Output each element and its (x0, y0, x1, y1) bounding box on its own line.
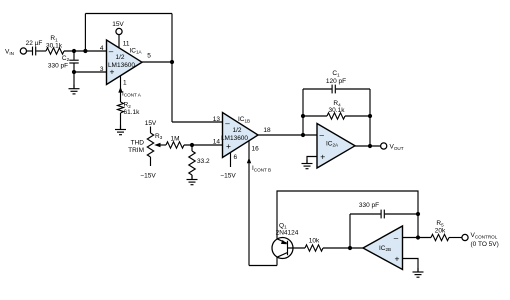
svg-text:11: 11 (123, 41, 130, 48)
svg-text:330 pF: 330 pF (48, 62, 68, 69)
svg-text:33.2: 33.2 (197, 158, 210, 165)
svg-text:−15V: −15V (140, 173, 156, 180)
svg-text:3: 3 (100, 66, 104, 73)
svg-text:–: – (225, 119, 230, 128)
svg-text:30.1k: 30.1k (46, 43, 63, 50)
svg-text:4: 4 (100, 45, 104, 52)
svg-text:6: 6 (234, 154, 238, 161)
svg-text:16: 16 (252, 146, 260, 153)
svg-text:1/2: 1/2 (115, 54, 124, 61)
svg-text:+: + (226, 141, 231, 151)
svg-text:330 pF: 330 pF (359, 202, 379, 209)
svg-text:15V: 15V (112, 21, 124, 28)
svg-text:+: + (320, 152, 325, 162)
svg-text:18: 18 (263, 127, 271, 134)
svg-text:13: 13 (213, 116, 221, 123)
svg-text:5: 5 (147, 53, 151, 60)
svg-text:61.1k: 61.1k (124, 109, 141, 116)
svg-text:THD: THD (131, 140, 145, 147)
svg-text:1/2: 1/2 (232, 127, 241, 134)
svg-text:TRIM: TRIM (128, 147, 144, 154)
svg-text:15V: 15V (145, 120, 157, 127)
svg-text:2N4124: 2N4124 (276, 230, 299, 237)
svg-text:14: 14 (213, 139, 221, 146)
svg-text:30.1k: 30.1k (329, 107, 346, 114)
svg-text:120 pF: 120 pF (326, 78, 346, 85)
svg-text:22 µF: 22 µF (26, 40, 43, 47)
svg-text:1M: 1M (170, 136, 179, 143)
svg-text:LM13600: LM13600 (108, 62, 135, 69)
svg-text:−15V: −15V (220, 173, 236, 180)
svg-text:20k: 20k (435, 228, 446, 235)
svg-text:10k: 10k (309, 238, 320, 245)
svg-text:(0 TO 5V): (0 TO 5V) (471, 241, 499, 248)
svg-text:–: – (319, 131, 324, 140)
svg-text:1: 1 (123, 80, 127, 87)
svg-text:–: – (394, 234, 399, 243)
svg-text:LM13600: LM13600 (221, 135, 248, 142)
svg-text:+: + (395, 254, 400, 264)
svg-text:–: – (109, 47, 114, 56)
